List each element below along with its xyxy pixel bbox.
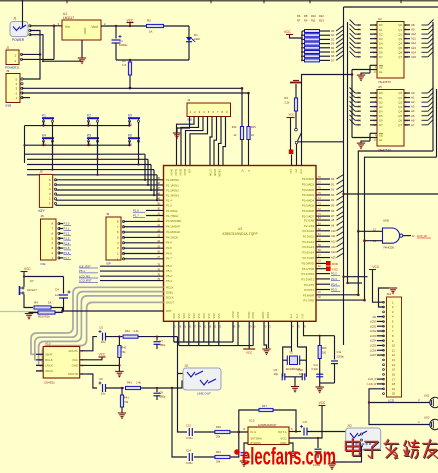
latch U2 74HC573	[370, 17, 416, 84]
svg-text:680p: 680p	[160, 343, 166, 347]
wire left audio L to lineout	[178, 337, 184, 374]
svg-text:D4: D4	[379, 109, 383, 113]
svg-text:Q2: Q2	[398, 32, 402, 36]
svg-text:U6D: U6D	[383, 219, 390, 223]
svg-text:VCC: VCC	[72, 358, 78, 362]
svg-text:C13: C13	[186, 424, 191, 428]
bus loop inner	[365, 157, 437, 300]
ground for LCD pin2	[379, 288, 398, 307]
svg-text:J4: J4	[187, 98, 191, 102]
svg-text:R50 R2b: R50 R2b	[38, 315, 50, 319]
svg-text:Q1: Q1	[398, 28, 402, 32]
svg-text:P0.6/AD6: P0.6/AD6	[302, 209, 314, 213]
svg-text:VDD: VDD	[193, 313, 196, 318]
svg-text:RXD: RXD	[332, 262, 338, 266]
svg-text:U2: U2	[378, 17, 382, 21]
svg-text:P0.3/AD3: P0.3/AD3	[302, 193, 314, 197]
svg-text:D1: D1	[379, 96, 383, 100]
svg-text:A10: A10	[411, 32, 416, 36]
capacitor C10 10p	[298, 368, 305, 380]
svg-text:J5: J5	[39, 170, 43, 174]
svg-text:LCD0: LCD0	[370, 320, 377, 324]
resistor R46 100	[318, 335, 327, 383]
test point top right of MCU	[289, 150, 294, 166]
svg-text:UVDD: UVDD	[232, 311, 235, 318]
svg-text:D0: D0	[379, 23, 383, 27]
svg-text:C14: C14	[186, 449, 191, 453]
capacitor C16 1000p	[313, 437, 322, 467]
ground crystal	[291, 387, 299, 393]
capacitor C4 1uF	[23, 275, 71, 311]
ground jack	[328, 464, 336, 470]
svg-text:LCD_R: LCD_R	[368, 377, 377, 381]
svg-text:1.5: 1.5	[122, 63, 127, 67]
svg-text:PVSS: PVSS	[252, 311, 255, 318]
resistor R50	[29, 311, 63, 319]
svg-text:P3.6/WR: P3.6/WR	[303, 293, 314, 297]
svg-text:VCC: VCC	[319, 401, 326, 405]
connector J1 power jack	[10, 17, 31, 43]
svg-text:P1.5: P1.5	[64, 246, 70, 250]
svg-text:P1.7: P1.7	[64, 256, 70, 260]
svg-text:680p: 680p	[160, 395, 166, 399]
svg-text:R12: R12	[319, 14, 324, 18]
svg-text:C17: C17	[303, 420, 308, 424]
svg-text:P3.2/INT0: P3.2/INT0	[301, 272, 314, 276]
svg-text:P1.3/KIN3: P1.3/KIN3	[166, 194, 179, 198]
svg-text:P2.2/A10: P2.2/A10	[302, 229, 314, 233]
wires MCU power pins comb	[173, 321, 175, 342]
svg-text:Q5: Q5	[398, 46, 402, 50]
wire key column 2	[97, 122, 99, 159]
svg-text:C11: C11	[313, 363, 318, 367]
svg-text:A12: A12	[331, 240, 336, 244]
VCC tap near R3	[287, 113, 296, 151]
wire WR to bus	[316, 294, 358, 296]
svg-text:DSEL: DSEL	[166, 290, 174, 294]
resistor R46b 20k	[194, 432, 239, 464]
svg-text:P3.3: P3.3	[331, 277, 337, 281]
wires to speakers	[369, 389, 430, 403]
svg-text:J1: J1	[13, 17, 17, 21]
svg-text:LED: LED	[194, 37, 201, 41]
svg-text:MCMD: MCMD	[219, 169, 222, 177]
svg-text:D6: D6	[379, 51, 383, 55]
wire key column 5	[97, 142, 99, 175]
svg-text:D2: D2	[379, 32, 383, 36]
resistor R41 74k	[120, 388, 129, 413]
svg-text:LCD_RS: LCD_RS	[79, 274, 90, 278]
wire bottom rail of power	[116, 59, 189, 61]
pushbutton K2	[87, 114, 99, 127]
pullup resistor pack R6-R13	[297, 14, 324, 62]
wire key net to MCU	[153, 170, 155, 196]
wire key bundle lines	[25, 153, 146, 155]
svg-text:AVSS: AVSS	[267, 312, 270, 319]
wire PSEN to right	[344, 193, 438, 195]
resistor R3 2.2k pullup	[285, 84, 298, 128]
svg-text:P4.1/MDAT: P4.1/MDAT	[166, 225, 181, 229]
wire FILT pin	[304, 321, 335, 335]
connector J11 LINE OUT	[183, 364, 221, 396]
capacitor C8 680p	[154, 387, 166, 400]
svg-text:R11: R11	[311, 19, 316, 23]
svg-text:Q1: Q1	[398, 96, 402, 100]
svg-text:P2.7/A15: P2.7/A15	[302, 256, 314, 260]
net labels J6	[59, 223, 63, 225]
svg-text:J6: J6	[41, 214, 45, 218]
svg-text:P1.6: P1.6	[64, 251, 70, 255]
wire top left tick	[22, 0, 24, 27]
svg-text:P0.4/AD4: P0.4/AD4	[302, 198, 314, 202]
svg-text:D6: D6	[331, 209, 335, 213]
svg-text:100: 100	[322, 351, 327, 355]
pushbutton K6	[128, 134, 140, 147]
watermark chinese characters	[346, 439, 438, 459]
wire R43 right	[140, 387, 142, 389]
svg-text:D4: D4	[379, 41, 383, 45]
wires resistor pack left common	[301, 31, 303, 60]
svg-text:XL2: XL2	[290, 313, 293, 318]
svg-text:P5.1: P5.1	[166, 269, 172, 273]
svg-text:1K: 1K	[48, 301, 52, 305]
svg-text:A1: A1	[411, 96, 415, 100]
DAC U10 CS4331	[36, 342, 87, 385]
svg-text:D2: D2	[331, 37, 335, 41]
wire amp bypass	[244, 443, 248, 452]
svg-text:GND: GND	[83, 28, 87, 36]
connector J10 LCD	[383, 292, 402, 403]
svg-text:74k: 74k	[121, 350, 126, 354]
svg-text:D7: D7	[331, 214, 335, 218]
wire J1 pin2 to J3	[22, 31, 40, 80]
svg-text:P2.6/A14: P2.6/A14	[302, 251, 314, 255]
wire U1 Vout rail	[101, 25, 189, 27]
svg-text:D5: D5	[379, 114, 383, 118]
svg-text:2.4k: 2.4k	[136, 381, 142, 385]
speaker US2	[424, 416, 438, 430]
svg-text:DOUT: DOUT	[166, 300, 174, 304]
svg-text:K3: K3	[128, 114, 132, 118]
ground reset	[25, 314, 33, 320]
svg-text:2.2k: 2.2k	[285, 101, 291, 105]
svg-text:LM4861MXOP: LM4861MXOP	[258, 423, 276, 427]
wire AVDD AVSS	[263, 321, 265, 342]
svg-text:D2: D2	[331, 188, 335, 192]
wire NAND output LCD_W	[403, 235, 411, 237]
svg-text:LCD7: LCD7	[370, 353, 377, 357]
svg-text:LCD6: LCD6	[370, 348, 377, 352]
wire USB D+ line	[22, 87, 242, 89]
svg-text:KBH2: KBH2	[180, 168, 183, 175]
capacitor C13 0.33u	[186, 424, 193, 441]
svg-text:Q2: Q2	[398, 100, 402, 104]
svg-text:P4.7: P4.7	[166, 257, 172, 261]
wire jack gnd	[332, 446, 362, 462]
svg-text:RCLK: RCLK	[166, 285, 174, 289]
wires U2 outputs diagonal to right bus	[422, 24, 429, 26]
svg-text:US1: US1	[424, 394, 430, 398]
connector J3 USB	[5, 69, 23, 108]
capacitor C6 10u	[99, 377, 106, 396]
svg-text:CS4331: CS4331	[44, 381, 55, 385]
svg-text:LCD3: LCD3	[370, 334, 377, 338]
wire key row 2	[25, 144, 130, 146]
svg-text:R8: R8	[304, 14, 308, 18]
svg-text:D4: D4	[331, 198, 335, 202]
wire J2 pin2	[22, 53, 41, 55]
wire R42 right	[138, 336, 178, 338]
capacitor C17 out	[300, 420, 308, 436]
svg-text:D7: D7	[379, 123, 383, 127]
wire amp output	[289, 431, 301, 433]
svg-text:U3: U3	[238, 227, 242, 231]
wire PVDD PVSS	[248, 321, 250, 349]
capacitor C5 10u	[99, 326, 106, 345]
svg-text:P0.5/AD5: P0.5/AD5	[302, 204, 314, 208]
svg-text:Q7: Q7	[398, 123, 402, 127]
svg-text:K7: K7	[30, 279, 34, 283]
wire EA pin with switch	[295, 128, 344, 165]
wires NAND inputs	[358, 230, 382, 232]
svg-text:D6: D6	[379, 119, 383, 123]
svg-text:K6: K6	[128, 134, 132, 138]
wire key column 3	[138, 122, 140, 164]
svg-text:P4.3/SCK: P4.3/SCK	[166, 235, 178, 239]
resistor R40 74k	[118, 337, 127, 366]
svg-text:K1: K1	[42, 114, 46, 118]
ground filt	[316, 387, 324, 393]
svg-text:VSS: VSS	[188, 313, 191, 318]
connector J5 KEY	[39, 170, 57, 214]
wires MCU P0 to bus	[316, 178, 330, 180]
svg-text:VCC: VCC	[246, 351, 253, 355]
svg-text:C5: C5	[99, 326, 103, 330]
svg-text:U5: U5	[378, 85, 382, 89]
svg-text:Q4: Q4	[398, 41, 402, 45]
VCC below MCU	[243, 349, 255, 355]
svg-text:VCC: VCC	[127, 18, 134, 22]
svg-text:K4: K4	[42, 134, 46, 138]
svg-text:10u: 10u	[101, 392, 106, 396]
wire cap to jack	[307, 431, 358, 433]
svg-text:P1.3: P1.3	[64, 236, 70, 240]
capacitor C11 0.33u	[312, 363, 324, 377]
svg-text:AT89C51SND1A-TQFP: AT89C51SND1A-TQFP	[222, 232, 258, 236]
svg-text:MCLE: MCLE	[210, 169, 213, 176]
svg-text:P1.7/SDA: P1.7/SDA	[166, 214, 178, 218]
svg-text:MCLK: MCLK	[45, 369, 53, 373]
svg-text:D5: D5	[331, 50, 335, 54]
wires U5 OE LE	[370, 132, 377, 134]
svg-text:D3: D3	[379, 37, 383, 41]
wire USB pin1 stub	[22, 97, 30, 99]
NAND gate U6D 74HC00	[373, 219, 403, 250]
svg-text:R6: R6	[297, 14, 301, 18]
svg-text:VCC: VCC	[288, 113, 295, 117]
resistor R14 22 (D+)	[232, 88, 244, 165]
svg-text:A14: A14	[331, 250, 336, 254]
svg-text:P1.6/SCL: P1.6/SCL	[166, 209, 178, 213]
svg-text:P5.3: P5.3	[166, 279, 172, 283]
svg-text:ISP: ISP	[106, 262, 111, 266]
svg-text:P3.0/RXD: P3.0/RXD	[302, 262, 314, 266]
svg-text:P1.4: P1.4	[64, 241, 70, 245]
svg-text:A15: A15	[331, 256, 336, 260]
capacitor C9 10p	[274, 368, 285, 380]
wire left rail bottom	[173, 341, 175, 343]
svg-text:J2: J2	[6, 46, 10, 50]
ground for J4	[173, 133, 181, 139]
wires MCU XTAL pins	[291, 321, 293, 347]
faint line left of RST	[0, 311, 63, 313]
svg-text:10u: 10u	[101, 340, 106, 344]
svg-text:C4: C4	[55, 288, 59, 292]
wire filt gnd rail	[320, 382, 335, 384]
svg-text:GND: GND	[72, 364, 78, 368]
svg-text:K5: K5	[87, 134, 91, 138]
svg-text:R3: R3	[285, 96, 289, 100]
svg-text:LCD_W: LCD_W	[417, 234, 427, 238]
svg-text:P3.5: P3.5	[331, 288, 337, 292]
wire C5 to R42	[106, 336, 123, 338]
svg-text:D1: D1	[331, 182, 335, 186]
svg-text:MDAT: MDAT	[214, 169, 217, 176]
svg-text:R10: R10	[311, 14, 316, 18]
capacitor C14 0.33u	[186, 449, 193, 466]
ground for U5	[357, 141, 370, 149]
svg-text:D1: D1	[379, 28, 383, 32]
svg-text:R9: R9	[304, 19, 308, 23]
svg-text:20k: 20k	[216, 460, 221, 464]
svg-text:J8: J8	[106, 212, 110, 216]
resistor R1 1.5	[122, 59, 132, 88]
svg-text:ICE_RST: ICE_RST	[79, 264, 91, 268]
svg-text:0.33u: 0.33u	[312, 367, 319, 371]
svg-text:P3.1/TXD: P3.1/TXD	[302, 267, 314, 271]
wires crystal loop	[283, 347, 292, 377]
svg-text:R45: R45	[216, 425, 221, 429]
svg-text:A7: A7	[411, 123, 415, 127]
svg-text:J10: J10	[387, 292, 392, 296]
svg-text:P4.5: P4.5	[166, 246, 172, 250]
svg-text:SHTDWN: SHTDWN	[251, 437, 263, 441]
svg-text:D3: D3	[379, 105, 383, 109]
svg-text:Q7: Q7	[398, 55, 402, 59]
connector J8	[106, 212, 125, 266]
svg-text:LINE OUT: LINE OUT	[197, 392, 211, 396]
wires J4 to MCU top	[177, 117, 190, 134]
svg-text:A10: A10	[331, 229, 336, 233]
svg-text:A14: A14	[411, 50, 416, 54]
svg-text:RESET: RESET	[27, 288, 37, 292]
svg-text:R47: R47	[262, 404, 267, 408]
svg-text:P2.5/A13: P2.5/A13	[302, 245, 314, 249]
svg-text:10p: 10p	[274, 372, 279, 376]
svg-text:D2: D2	[379, 100, 383, 104]
ground for U2	[357, 73, 370, 81]
wire C6 to R43	[106, 387, 125, 389]
ground U10	[115, 371, 123, 377]
svg-text:Q4: Q4	[398, 109, 402, 113]
svg-text:R41: R41	[124, 396, 129, 400]
wires J8 to MCU	[124, 220, 164, 222]
svg-text:R7: R7	[297, 19, 301, 23]
svg-text:P1.1/KIN1: P1.1/KIN1	[166, 183, 179, 187]
wire J1 pin3 to ground rail	[30, 35, 81, 62]
ground R41	[118, 413, 126, 419]
svg-text:20k: 20k	[216, 435, 221, 439]
pushbutton K7 RESET	[20, 279, 38, 303]
VCC amp	[289, 401, 326, 438]
svg-text:P4.4: P4.4	[166, 241, 172, 245]
svg-text:P0.0/AD0: P0.0/AD0	[302, 177, 314, 181]
svg-text:KBH0: KBH0	[171, 168, 174, 175]
svg-text:D0: D0	[331, 177, 335, 181]
watermark elecfans logo	[234, 444, 336, 471]
svg-text:A13: A13	[411, 46, 416, 50]
resistor R45 20k	[194, 425, 248, 439]
power VCC net	[127, 18, 135, 26]
pushbutton K1	[42, 114, 54, 127]
wire vertical J2 pin1	[53, 26, 55, 60]
svg-text:A4: A4	[411, 109, 415, 113]
svg-text:ALE: ALE	[300, 169, 303, 174]
svg-text:BCLK: BCLK	[45, 358, 53, 362]
svg-text:74k: 74k	[124, 400, 129, 404]
wire amp gnd	[289, 443, 293, 452]
resistor R42 2.4k	[123, 329, 139, 338]
svg-text:74HC573: 74HC573	[378, 80, 391, 84]
svg-text:P3.4/T0: P3.4/T0	[304, 283, 314, 287]
svg-text:VCC: VCC	[24, 267, 31, 271]
svg-text:J3: J3	[6, 69, 10, 73]
svg-text:KEY: KEY	[39, 209, 46, 213]
VCC for U10	[87, 353, 106, 360]
svg-text:0.33u: 0.33u	[186, 461, 193, 465]
svg-text:LE: LE	[379, 138, 383, 142]
svg-text:D6: D6	[331, 54, 335, 58]
svg-text:USB: USB	[5, 104, 11, 108]
bus loop outer	[358, 151, 433, 295]
svg-text:AOUTR: AOUTR	[68, 372, 78, 376]
sheet border top	[0, 0, 438, 2]
svg-text:C6: C6	[99, 377, 103, 381]
VCC for resistor pack	[284, 30, 302, 38]
wires bus jogs near LCD	[344, 276, 368, 278]
svg-text:0.33u: 0.33u	[186, 436, 193, 440]
svg-text:US2: US2	[424, 416, 430, 420]
svg-text:R4: R4	[34, 301, 38, 305]
wires crystal gnd	[284, 376, 286, 378]
pushbutton K3	[128, 114, 140, 127]
svg-text:P1.2: P1.2	[64, 232, 70, 236]
wire ALE to latch LE common	[351, 70, 353, 138]
ground bar above R3	[290, 81, 302, 83]
wire key column 4	[52, 142, 54, 169]
wires U5 outputs diagonal to right bus	[422, 92, 429, 94]
svg-text:D4: D4	[331, 46, 335, 50]
wires resistor pack to data bus	[320, 30, 331, 32]
microcontroller U3 AT89C51SND1A-TQFP	[164, 166, 317, 322]
bus right edge vertical 2	[436, 89, 438, 157]
svg-text:D-: D-	[248, 169, 251, 172]
wire key row 1	[25, 125, 130, 127]
svg-text:2200p: 2200p	[337, 355, 345, 359]
svg-text:FILT: FILT	[302, 313, 305, 318]
svg-text:LE: LE	[379, 70, 383, 74]
svg-text:A9: A9	[411, 28, 415, 32]
